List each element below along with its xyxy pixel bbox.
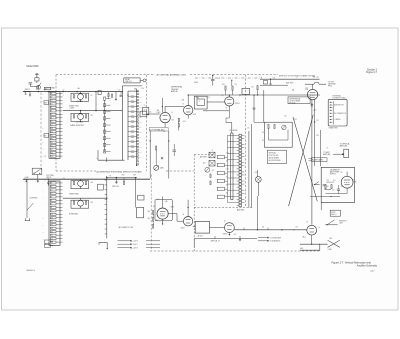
main input bus wire (25, 91, 123, 93)
test point lower TP3 (25, 179, 27, 181)
connector terminal blocks below J3 (45, 240, 51, 243)
svg-text:Z1: Z1 (144, 105, 146, 107)
vertical wire to V1 base (161, 98, 163, 112)
svg-text:C12: C12 (118, 90, 121, 92)
svg-text:V18: V18 (51, 242, 54, 244)
vacuum tube V5 (341, 176, 353, 188)
svg-text:V6: V6 (306, 222, 308, 224)
ground G4 (115, 178, 117, 181)
svg-text:C15: C15 (149, 112, 152, 114)
svg-text:330: 330 (226, 192, 228, 194)
resistor R31 in HV box (331, 185, 332, 189)
transistor Q1 (78, 94, 84, 100)
svg-text:6CW5: 6CW5 (353, 182, 357, 184)
connector strip J2 body (49, 92, 60, 159)
svg-text:R81: R81 (91, 202, 94, 204)
svg-text:SWP OUT TO EXT HORIZ CONNECTOR: SWP OUT TO EXT HORIZ CONNECTOR (A6) (279, 75, 316, 78)
vertical feed x263.8 (263, 90, 265, 122)
svg-text:18: 18 (45, 244, 47, 246)
svg-text:C36: C36 (139, 121, 142, 123)
resistor R21 in box (268, 125, 269, 129)
svg-text:INPUT: INPUT (25, 89, 30, 91)
J5 inner divider (332, 101, 334, 124)
dash-dot partition x=146.5 (146, 75, 148, 171)
long vertical wire center (168, 131, 170, 179)
resistor R30 in HV box (325, 185, 326, 189)
wire inside position box (268, 129, 270, 141)
resistor stack RS1 (153, 210, 154, 214)
wire connecting x254 to position box (254, 121, 264, 123)
IC U1 pin pads (239, 134, 242, 136)
position control box outline (264, 122, 292, 147)
svg-text:D4: D4 (51, 104, 53, 106)
output stage V4 enclosure (155, 199, 172, 221)
resistor R15 (225, 86, 226, 90)
svg-text:INPUT: INPUT (47, 177, 52, 179)
terminal box T2 (344, 149, 349, 157)
svg-text:LINE FREQ: LINE FREQ (30, 197, 39, 199)
wire top distribution (188, 94, 320, 96)
transistor Q4 (78, 200, 84, 206)
wire Q2 row to ladder (95, 92, 97, 111)
second wire row (260, 84, 288, 86)
vacuum tube V6 (307, 225, 317, 235)
svg-text:V5: V5 (341, 172, 343, 174)
svg-text:R60: R60 (148, 211, 151, 213)
vacuum tube V3 (307, 89, 317, 99)
external connector J5 box (328, 99, 347, 126)
svg-text:GND: GND (300, 248, 303, 250)
dense connector label band (312, 158, 328, 162)
bottom wire with corner (300, 249, 320, 251)
svg-text:10: 10 (319, 227, 321, 229)
svg-text:R55: R55 (294, 119, 297, 121)
transistor Q3 (78, 181, 84, 187)
switch S3 (25, 220, 30, 222)
svg-text:EXT TRIG: EXT TRIG (47, 175, 55, 177)
svg-text:+225 V: +225 V (133, 248, 139, 250)
wire box to Q5 emitter (203, 110, 229, 112)
HV box bottom internal wire (310, 196, 340, 198)
left dash-dot boundary x=41 (40, 93, 42, 171)
crossing signal wire A (293, 117, 317, 201)
svg-text:A&B SEL: A&B SEL (237, 208, 245, 211)
resistor chain R11 (178, 118, 179, 122)
svg-text:R14: R14 (51, 138, 54, 140)
svg-text:Figure 2-7. Vertical Attenuat: Figure 2-7. Vertical Attenuator and (332, 260, 372, 264)
svg-text:NO CONNECTION: NO CONNECTION (334, 113, 346, 115)
svg-text:Model 6600: Model 6600 (27, 66, 40, 68)
capacitor C47 (323, 184, 326, 186)
lower connector strip J3 body (49, 181, 60, 245)
variable capacitor C2 (37, 85, 41, 89)
transistor V2 (184, 106, 193, 115)
svg-text:R58: R58 (316, 135, 319, 137)
dashed inner box lower-middle top edge (194, 154, 215, 156)
termination box right of ladder (143, 107, 149, 114)
resistor R3 (73, 115, 74, 119)
svg-text:Q2 2N404: Q2 2N404 (76, 121, 83, 123)
lower sweep stage Q4 outline (71, 200, 89, 208)
tick marks on long output wire (243, 228, 245, 230)
ladder section resistors left (104, 100, 106, 152)
svg-text:1K: 1K (226, 177, 228, 179)
coupling capacitor C7 (211, 79, 215, 81)
svg-text:B2: B2 (51, 97, 53, 99)
vertical wire x257.5 upper (257, 170, 259, 177)
svg-text:C25: C25 (247, 128, 250, 130)
svg-text:C37: C37 (139, 126, 142, 128)
svg-text:A7 CENTRAL ASSEMBLY UNIT: A7 CENTRAL ASSEMBLY UNIT (157, 74, 187, 77)
delay driver box A4 (195, 221, 209, 233)
svg-text:R41: R41 (212, 170, 215, 172)
crystal Y1 (209, 152, 215, 158)
svg-text:+100 V: +100 V (133, 241, 139, 243)
misc junction dots scatter (122, 91, 123, 92)
attenuator switch S1 box (44, 87, 51, 90)
svg-text:U17: U17 (51, 238, 54, 240)
resistor R26 (123, 181, 124, 185)
svg-text:E5: E5 (51, 107, 53, 109)
resistor R2 (85, 95, 86, 99)
wire top connection (107, 177, 137, 179)
svg-text:DS2: DS2 (329, 238, 332, 240)
svg-text:INTENSITY: INTENSITY (339, 220, 347, 222)
svg-text:R10: R10 (91, 115, 94, 117)
svg-text:20: 20 (45, 156, 47, 158)
svg-text:SWP LEN: SWP LEN (112, 186, 119, 188)
svg-text:W19: W19 (51, 156, 54, 158)
dashed top edge far right stub (313, 76, 319, 78)
svg-text:M11: M11 (51, 218, 54, 220)
svg-text:N12: N12 (51, 131, 54, 133)
svg-text:C42: C42 (139, 151, 142, 153)
svg-text:470: 470 (226, 185, 228, 187)
vertical position text box (267, 150, 286, 163)
ground G2 (37, 175, 39, 180)
svg-text:J6: J6 (261, 77, 263, 79)
delay line box DL1 (124, 78, 140, 83)
junction dot lower bus (48, 179, 49, 180)
transistor Q5 (225, 97, 234, 106)
svg-text:R22: R22 (172, 119, 175, 121)
svg-text:V4B: V4B (165, 201, 168, 203)
svg-text:Amplifier Schematic: Amplifier Schematic (357, 264, 378, 267)
svg-text:GND: GND (122, 175, 125, 177)
arrow head on lower bus left (22, 178, 24, 180)
lower distribution wire (194, 238, 257, 240)
svg-text:C38: C38 (139, 131, 142, 133)
probe jack J4 (143, 79, 146, 82)
svg-text:R14: R14 (51, 228, 54, 230)
svg-text:R31: R31 (207, 97, 210, 99)
svg-text:Q1 2N404: Q1 2N404 (76, 101, 83, 103)
wire from tube V3 zone into HV box (320, 130, 322, 166)
svg-text:680: 680 (163, 131, 165, 133)
ladder rail left (121, 86, 123, 160)
focus switch S5 (314, 184, 320, 186)
input resistor box R10 (140, 111, 147, 117)
svg-text:2N404: 2N404 (181, 228, 185, 230)
small comps left of IC (210, 174, 211, 178)
lower sweep stage Q3 outline (71, 181, 89, 189)
svg-text:LIMIT: LIMIT (339, 222, 343, 224)
resistor R14 (156, 146, 157, 150)
wire ladder to V1 (147, 113, 160, 115)
svg-text:C31: C31 (316, 120, 319, 122)
svg-text:6600-D-2: 6600-D-2 (27, 270, 36, 272)
wire lamp drop (257, 182, 259, 196)
svg-text:V3 6DJ8: V3 6DJ8 (289, 102, 295, 104)
svg-text:2.2K: 2.2K (226, 169, 229, 171)
svg-text:C48: C48 (332, 190, 335, 192)
emitter network box U4 (194, 96, 207, 109)
bus wire second row (63, 110, 122, 112)
extra bus hang resistor (108, 94, 109, 97)
svg-text:L10: L10 (51, 125, 53, 127)
svg-text:POSITION R25: POSITION R25 (269, 155, 279, 157)
svg-text:K9: K9 (51, 121, 53, 123)
high voltage block box (321, 167, 354, 202)
svg-text:R35: R35 (235, 84, 238, 86)
arrow head on upper bus left (22, 91, 24, 93)
svg-text:SWEEP GEN: SWEEP GEN (69, 105, 79, 107)
svg-text:NOTE: NOTE (331, 212, 335, 214)
test point TP1 (25, 92, 27, 95)
input attenuator T1 cluster (35, 78, 39, 81)
svg-text:R70: R70 (327, 180, 330, 182)
supply callouts left group (118, 240, 130, 242)
svg-text:TO CRT: TO CRT (328, 82, 334, 84)
wire drop to mode switch (26, 179, 28, 196)
svg-text:B2: B2 (51, 186, 53, 188)
junction dots output wire (239, 94, 240, 95)
wire DL1 to probe jack (140, 79, 143, 81)
svg-text:R14: R14 (142, 88, 145, 90)
relay K1 box (98, 184, 104, 190)
wire bottom right horizontal (300, 243, 328, 245)
svg-text:C40: C40 (139, 141, 142, 143)
svg-text:S15: S15 (51, 231, 54, 233)
svg-text:R61: R61 (148, 218, 151, 220)
bias box U3 (242, 88, 250, 94)
svg-text:C50: C50 (63, 178, 66, 180)
dashed enclosure A7 top edge left (56, 74, 155, 76)
svg-text:LINE DL1: LINE DL1 (125, 81, 132, 83)
svg-text:-100 V: -100 V (133, 244, 139, 246)
svg-text:C47: C47 (326, 186, 329, 188)
sweep generator Q1 stage outline (71, 93, 89, 101)
gain pot R13 (154, 165, 159, 170)
svg-text:P13: P13 (51, 135, 54, 137)
svg-text:S15: S15 (51, 142, 54, 144)
label to horiz amp arrows (258, 237, 266, 239)
bottom-left bracket wire (99, 242, 107, 244)
wire HV internal (326, 193, 348, 195)
ground G5 (239, 238, 241, 241)
crystal Y2 (209, 160, 215, 166)
svg-text:E5: E5 (51, 197, 53, 199)
pickup components row (263, 81, 267, 84)
arrow wire to small box (333, 153, 341, 155)
cathode wire V3 down (311, 100, 313, 225)
svg-text:R71: R71 (333, 180, 336, 182)
long output wire to right (234, 229, 306, 231)
svg-text:R65: R65 (234, 234, 237, 236)
cap C48 bottom (324, 189, 331, 191)
intensity switch S4 (325, 224, 337, 226)
wire A4 to Q7 (210, 227, 225, 229)
svg-text:TO VERT: TO VERT (323, 152, 330, 154)
wire drop x135.5 (135, 178, 137, 208)
svg-text:C39: C39 (139, 136, 142, 138)
ladder rail right (127, 91, 129, 160)
resistor R6 (85, 181, 86, 184)
pilot lamp crossing wires (328, 240, 340, 247)
vertical wire x254 (253, 95, 255, 122)
svg-text:Q7: Q7 (224, 220, 226, 222)
connector bump symbol (313, 82, 316, 84)
svg-text:R9: R9 (91, 95, 93, 97)
svg-text:4.7K: 4.7K (226, 153, 229, 155)
dashed inner box lower-middle left edge (193, 155, 195, 251)
label strip MAIN BANG (149, 128, 168, 131)
svg-text:C33: C33 (139, 106, 142, 108)
svg-text:C31: C31 (139, 96, 142, 98)
resistor R1 (73, 95, 74, 99)
svg-text:C32: C32 (139, 101, 142, 103)
label box differential output amplifier (288, 97, 310, 104)
svg-text:H7: H7 (51, 114, 53, 116)
lower pin column wire (106, 176, 108, 238)
svg-text:T16: T16 (51, 145, 54, 147)
svg-text:C45: C45 (341, 186, 344, 188)
svg-text:L10: L10 (51, 214, 53, 216)
wire down right of IC (257, 196, 259, 230)
svg-text:U17: U17 (51, 149, 54, 151)
lower bus wire (25, 178, 150, 180)
svg-text:2N3906: 2N3906 (223, 234, 228, 236)
ground G6 (228, 233, 230, 236)
svg-text:R51: R51 (262, 140, 265, 142)
svg-text:T16: T16 (51, 235, 54, 237)
svg-text:SWP: SWP (133, 175, 136, 177)
wire feed into IC top (231, 123, 233, 134)
capacitor C6 (173, 149, 177, 151)
svg-text:Q5: Q5 (222, 95, 224, 97)
label box TRIG left of J2 (44, 134, 49, 138)
wire V6 down (311, 235, 313, 244)
ladder output pin line (136, 89, 138, 165)
svg-text:R80: R80 (91, 182, 94, 184)
resistor R16 (232, 86, 233, 90)
capacitor C1 (29, 82, 33, 84)
svg-text:C3: C3 (51, 100, 53, 102)
svg-text:D4: D4 (51, 193, 53, 195)
svg-text:M11: M11 (51, 128, 54, 130)
transistor Q6 (183, 217, 192, 226)
svg-text:6DJ8: 6DJ8 (193, 114, 196, 116)
ground G3 (161, 156, 163, 159)
svg-text:Q6: Q6 (182, 214, 184, 216)
wire into Q6 from above (187, 200, 189, 217)
svg-text:R24: R24 (183, 121, 186, 123)
ladder output pin (106, 158, 108, 163)
resistor chain R12 (178, 123, 179, 127)
vertical wire x248.9 (248, 131, 250, 208)
svg-text:V18: V18 (51, 152, 54, 154)
dashed partition x=245.3 (244, 75, 246, 208)
HV box bottom wire (320, 203, 322, 211)
dash-dot partition top y78 (195, 77, 262, 79)
dashed enclosure bottom edge (150, 250, 320, 252)
wire V1 to V2 (165, 105, 184, 107)
svg-text:DS1: DS1 (255, 172, 258, 174)
small box left of ladder (98, 91, 101, 95)
wire R16 top stub (231, 80, 233, 86)
svg-text:PIN 3: PIN 3 (328, 86, 332, 88)
wire to lower tube (314, 99, 316, 166)
dashed enclosure A7 left edge (55, 75, 57, 171)
svg-text:P13: P13 (51, 224, 54, 226)
svg-text:K9: K9 (51, 211, 53, 213)
svg-text:C43: C43 (139, 156, 142, 158)
transistor V1 (160, 112, 170, 122)
bus wire lower second row (63, 197, 107, 199)
resistor R17 vertical (257, 86, 258, 90)
svg-text:W3: W3 (296, 227, 298, 229)
svg-text:J7: J7 (327, 148, 329, 150)
test point TP2 (29, 92, 31, 95)
position pot R20 (282, 125, 286, 129)
svg-text:C21: C21 (273, 78, 276, 80)
svg-text:N12: N12 (51, 221, 54, 223)
svg-text:C18: C18 (251, 87, 254, 89)
svg-text:R33: R33 (222, 84, 225, 86)
svg-text:V2: V2 (182, 103, 184, 105)
transistor Q2 (78, 114, 84, 120)
capacitor C10 in HV box (337, 188, 340, 190)
indicator lamp DS1 (255, 177, 261, 183)
vertical wire x150 (149, 131, 151, 179)
svg-text:A2 SWEEP AND HORIZONTAL DEFLEC: A2 SWEEP AND HORIZONTAL DEFLECTION BOARD (97, 171, 143, 174)
bias resistor bank RB1 (217, 155, 224, 158)
capacitor C26 on x254 wire (253, 107, 256, 109)
ladder section capacitors right (131, 95, 134, 97)
note box N1 (330, 210, 340, 216)
bus hang component X1 (115, 92, 117, 100)
label box SWEEP left of J2 (44, 101, 49, 105)
svg-text:10K: 10K (226, 161, 228, 163)
svg-text:C2: C2 (63, 89, 65, 91)
IC fan-out wires (228, 134, 237, 136)
svg-text:V4: V4 (153, 206, 155, 208)
svg-text:C34: C34 (139, 111, 142, 113)
wire Q6 to A4 (193, 226, 195, 228)
svg-text:C16: C16 (218, 78, 221, 80)
resistor R5 (73, 181, 74, 184)
ladder bottom edge (98, 159, 125, 161)
svg-text:SEE 2-4: SEE 2-4 (331, 214, 336, 216)
svg-text:C30: C30 (284, 115, 287, 117)
dashed enclosure left edge lower (150, 175, 152, 252)
vertical wire x251.5 (251, 124, 253, 208)
capacitor C8 on cathode line (311, 104, 314, 106)
svg-text:C40: C40 (157, 199, 160, 201)
svg-text:A3 VERT: A3 VERT (200, 156, 207, 159)
svg-text:W2: W2 (262, 227, 264, 229)
power switch S2 (32, 168, 42, 174)
